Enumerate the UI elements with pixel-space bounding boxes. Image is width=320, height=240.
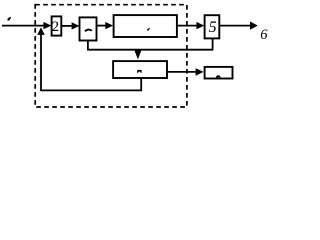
svg-text:2: 2 <box>52 19 60 35</box>
dashed boundary box <box>35 5 187 107</box>
node 1 input label <box>7 17 11 21</box>
block 4 <box>114 15 177 37</box>
wire block5 bottom drop <box>212 38 214 49</box>
wire block3 bottom drop <box>87 41 89 51</box>
arrowhead into block 4 <box>105 22 113 29</box>
arrowhead down into block 7 <box>134 50 141 59</box>
wire block4 to block5 <box>177 25 198 27</box>
svg-text:5: 5 <box>209 19 217 36</box>
wire block3 to block4 <box>97 25 107 27</box>
wire input line <box>2 25 45 27</box>
label 8 glyph <box>217 76 220 78</box>
block 7 <box>113 61 167 78</box>
wire block7 bottom drop <box>140 78 142 90</box>
wire block2 to block3 <box>61 25 73 27</box>
wire feedback vertical <box>40 34 42 91</box>
arrowhead into block 5 <box>196 22 204 29</box>
arrowhead output <box>250 21 258 29</box>
block 3 <box>80 17 97 40</box>
arrowhead into block 2 <box>43 22 51 29</box>
arrowhead up into input line <box>37 27 44 35</box>
block 2 <box>52 16 62 35</box>
arrowhead into block 3 <box>72 22 80 29</box>
label 7 glyph <box>137 70 142 73</box>
label 4 tiny glyph <box>147 28 150 31</box>
wire block7 to block8 <box>167 71 197 73</box>
wire feedback bottom horizontal <box>40 89 142 91</box>
block 8 <box>205 67 233 79</box>
block 5 <box>205 15 220 38</box>
svg-text:6: 6 <box>260 27 268 43</box>
arrowhead into block 8 <box>196 68 204 75</box>
wire horizontal return line y50 <box>88 49 213 51</box>
wire output from block 5 <box>219 25 251 27</box>
label 3 tilde glyph <box>85 30 92 32</box>
